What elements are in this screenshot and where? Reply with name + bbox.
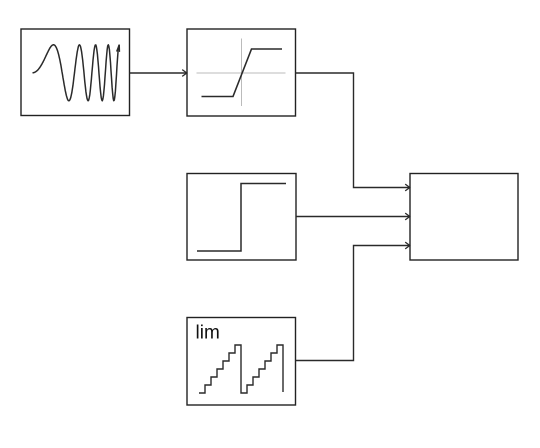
svg-text:lim: lim <box>196 323 220 344</box>
